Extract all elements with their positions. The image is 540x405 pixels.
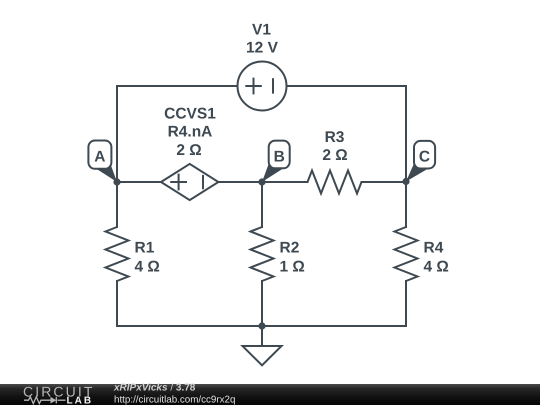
logo diode [51,397,57,404]
resistor R3 [308,171,362,194]
wire A to CCVS1 [117,181,161,183]
svg-text:R4: R4 [424,240,444,257]
svg-text:http://circuitlab.com/cc9rx2q: http://circuitlab.com/cc9rx2q [114,394,235,405]
junction dot bottom [258,322,265,329]
ccvs CCVS1 diamond [161,164,218,200]
wire right vertical lower [405,281,407,326]
svg-text:R4.nA: R4.nA [168,124,213,141]
svg-text:2 Ω: 2 Ω [176,142,201,159]
wire R3 to C [362,181,407,183]
node A flag [88,141,117,183]
svg-text:R3: R3 [325,129,345,146]
wire left vertical upper [116,86,118,227]
wire B down to R2 [261,182,263,227]
wire R2 to bottom [261,281,263,326]
ground [243,326,282,365]
voltage source V1 [238,62,287,111]
svg-text:A: A [94,148,105,165]
svg-text:B: B [274,148,285,165]
junction dot node B [258,178,265,185]
footer bar [0,384,540,405]
junction dot node A [113,178,120,185]
resistor R1 [106,227,129,281]
svg-text:CCVS1: CCVS1 [164,106,216,123]
svg-text:12 V: 12 V [246,40,279,57]
wire top-right horizontal [287,85,407,87]
resistor R2 [251,227,274,281]
svg-text:LAB: LAB [67,396,94,405]
svg-text:R1: R1 [135,240,155,257]
logo wire squiggle [24,397,66,404]
svg-text:4 Ω: 4 Ω [135,259,160,276]
svg-text:1 Ω: 1 Ω [280,259,305,276]
node C flag [406,141,435,182]
wire left vertical lower [116,281,118,326]
svg-text:2 Ω: 2 Ω [322,147,347,164]
svg-text:V1: V1 [252,21,271,38]
svg-text:R2: R2 [280,240,300,257]
junction dot node C [402,178,409,185]
wire bottom horizontal [117,325,406,327]
wire right vertical upper [405,86,407,227]
wire CCVS1 to R3 [219,181,308,183]
svg-text:C: C [419,148,430,165]
svg-text:xRIPxVicks / 3.78: xRIPxVicks / 3.78 [113,383,196,394]
node B flag [262,141,290,182]
svg-text:4 Ω: 4 Ω [424,259,449,276]
resistor R4 [395,227,418,281]
wire top-left horizontal [117,85,238,87]
